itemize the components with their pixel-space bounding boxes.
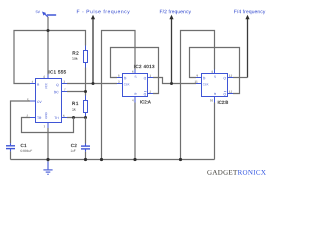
wire: IC2.A Q to IC2.B CLK — [153, 78, 196, 84]
wire: R1 C2 column down to C2 — [85, 118, 87, 144]
resistor R2 — [72, 46, 87, 68]
capacitor C1 — [6, 143, 32, 152]
node: rail junction C2 — [84, 158, 87, 161]
probe arrow F/2 — [169, 15, 173, 84]
wire: C2 bottom to ground rail — [85, 152, 87, 160]
pin numbers IC2.A — [118, 71, 151, 102]
power terminal 5V — [36, 11, 56, 17]
wire: 5V drop to 555 VCC pin — [47, 17, 49, 75]
probe arrow F/4 — [245, 15, 249, 78]
wire: IC2.B reset pin down to rail end — [214, 103, 216, 160]
wire: 555 GND pin down — [47, 128, 49, 162]
capacitor C2 — [71, 144, 90, 152]
label F/2 frequency — [160, 10, 191, 15]
label IC1 555 — [49, 70, 66, 73]
wire: IC2.B set pin loop to ground rail — [181, 31, 215, 160]
node: junction of 5V feed on top rail — [47, 29, 50, 32]
resistor R1 — [72, 96, 87, 118]
wire: IC2.A set pin loop to ground rail — [102, 31, 136, 160]
node: junction TR loop on TH wire — [72, 116, 75, 119]
node: junction R1 C2 on TH wire — [84, 116, 87, 119]
wire: IC2.B D to Qbar feedback loop — [190, 48, 240, 94]
wire: C1 bottom to ground rail — [10, 151, 12, 159]
wire: IC2.A D to Qbar feedback loop — [111, 48, 159, 94]
probe arrow F — [91, 15, 95, 84]
node: rail junction 555 GND — [46, 158, 49, 161]
pin numbers IC2.B — [195, 71, 232, 102]
wire: IC2.A reset pin to ground rail — [134, 103, 136, 160]
label IC2 4013 — [134, 65, 154, 68]
label IC2:B — [218, 101, 228, 104]
wire: 555 Q output to IC2.A CLK — [67, 83, 117, 85]
ground symbol — [43, 162, 52, 175]
label F - Pulse frequency — [77, 10, 130, 15]
wire: DC pin to R column — [67, 91, 86, 93]
node: rail junction S loop B — [179, 158, 182, 161]
wire: top rail with left rail to reset and right drop to R2 — [14, 31, 86, 84]
pin numbers 555 — [27, 76, 66, 128]
logo GADGETRONICX — [207, 170, 265, 175]
wire: R2 bottom through DC junction to R1 top — [85, 68, 87, 96]
node: rail junction S loop A — [100, 158, 103, 161]
node: junction F/2 probe — [170, 82, 173, 85]
wire: TH pin to R1 C2 column — [67, 117, 86, 119]
wire: ground rail — [11, 159, 215, 161]
node: junction DC R2 R1 — [84, 90, 87, 93]
label IC2:A — [140, 100, 150, 103]
node: junction F probe on Q wire — [92, 82, 95, 85]
node: rail junction R pin A — [133, 158, 136, 161]
wire: TR loop below 555 — [22, 118, 74, 133]
label F/4 frequency — [234, 10, 265, 15]
flip-flop IC2.B body — [196, 70, 233, 103]
flip-flop IC2.A body — [117, 70, 153, 103]
wire: CV pin to C1 — [11, 101, 31, 143]
IC U1 555 timer body — [30, 75, 67, 129]
wire: IC2.B Q to F/4 probe — [233, 77, 248, 79]
